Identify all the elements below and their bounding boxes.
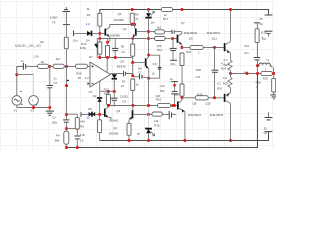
svg-text:R14: R14 (156, 98, 162, 102)
svg-text:C4: C4 (80, 138, 84, 142)
wire Q10 collector to neg rail (230, 103, 232, 140)
resistor R17 (in rail) (161, 7, 172, 21)
capacitor C10 (244, 44, 260, 74)
svg-text:2N5401: 2N5401 (109, 119, 119, 123)
resistor R29 (damper) (261, 68, 275, 81)
row 114.2 right + resistor col 77 (67, 114, 86, 129)
svg-text:D2: D2 (93, 94, 97, 98)
svg-text:out: out (244, 70, 248, 74)
top driver row 47.1 (180, 45, 224, 54)
driver emitter resistors col 182 (180, 53, 201, 98)
svg-text:Q10: Q10 (205, 101, 211, 105)
svg-text:di4: di4 (40, 40, 44, 44)
wire D4 to node (92, 33, 100, 35)
resistor R27 (zigzag) (224, 58, 233, 70)
svg-text:R28: R28 (223, 82, 229, 86)
inductor L1 (258, 58, 274, 74)
svg-text:39: 39 (122, 80, 126, 84)
svg-text:78: 78 (137, 132, 141, 136)
svg-text:L1: L1 (266, 58, 270, 62)
wire tie to D4 (74, 33, 88, 35)
svg-text:2N5384: 2N5384 (109, 131, 119, 135)
ground (load) (270, 95, 277, 99)
svg-text:C13: C13 (160, 84, 166, 88)
resistor (VAS load col 132.7) (131, 79, 140, 106)
tie (input bias) (73, 31, 75, 37)
capacitor row 114.1 (169, 111, 176, 119)
junction Q5 collector node (147, 54, 150, 57)
resistor R7 (tail) (89, 45, 110, 59)
transistor Q4 (113, 106, 148, 130)
svg-text:10n: 10n (171, 62, 176, 66)
svg-text:C7: C7 (138, 70, 142, 74)
junction col66 input (65, 65, 68, 68)
junction input col (15, 73, 18, 76)
junction VAS node (131, 74, 134, 77)
wire Q9 collector to rail (230, 10, 232, 42)
ground (sources) (46, 111, 54, 115)
svg-text:70: 70 (135, 17, 139, 21)
tie bar (net) (170, 60, 177, 66)
resistor (col 108.4) (106, 92, 127, 106)
transistor Q7 (178, 32, 182, 48)
zener D7 (146, 115, 155, 143)
diode D2 (93, 88, 109, 115)
svg-text:F9: F9 (52, 20, 56, 24)
wire Q10 emitter up (230, 87, 232, 92)
opamp X1 (88, 58, 126, 95)
svg-text:D4: D4 (86, 38, 90, 42)
svg-text:1.2: 1.2 (86, 22, 91, 26)
svg-text:R25: R25 (197, 93, 203, 97)
svg-text:R5: R5 (80, 124, 84, 128)
wire Q1 emitter to tail (108, 37, 110, 42)
svg-text:1u: 1u (170, 77, 174, 81)
capacitor C11 (col 215) (211, 48, 226, 98)
svg-text:BD140: BD140 (117, 64, 126, 68)
wire Q9 emitter (230, 53, 232, 60)
svg-text:27: 27 (121, 84, 125, 88)
wire detour col 159.6 (149, 55, 160, 78)
opamp supply row 57.7 (97, 56, 132, 59)
resistor R9 (col 100) (98, 42, 102, 58)
svg-text:12: 12 (86, 116, 90, 120)
source V3 (29, 96, 39, 113)
svg-text:R24: R24 (221, 67, 227, 71)
resistor (col 66 top) (64, 37, 68, 66)
junction zener col row38.5 (147, 37, 150, 40)
wire R5 bottom (131, 23, 133, 24)
svg-text:6.8: 6.8 (153, 62, 157, 66)
capacitor C4 col 77 (74, 129, 85, 150)
tie bar (output R19 top) (254, 23, 260, 29)
resistor R4 (55, 131, 69, 149)
wire zener col down (long spine) (148, 78, 150, 105)
transistor Q9 (225, 42, 231, 54)
wire Q1 collector loop (110, 25, 132, 27)
svg-text:C11: C11 (195, 75, 200, 79)
wire R7 to opamp rail (107, 56, 109, 59)
junction zener col row31.8 (147, 30, 150, 33)
svg-text:R19: R19 (261, 31, 267, 35)
capacitor C7 (133, 66, 148, 79)
svg-text:10u: 10u (73, 38, 78, 42)
svg-text:Q2: Q2 (116, 109, 120, 113)
compensation cap (output) (122, 71, 133, 84)
junction rail x182 (181, 8, 184, 11)
resistor (Q2 base col) (98, 115, 269, 141)
junction loop b (133, 23, 136, 26)
svg-text:100n: 100n (51, 120, 58, 124)
svg-text:R6: R6 (135, 12, 139, 16)
capacitor C3 col 66 (51, 115, 69, 131)
svg-text:30: 30 (264, 126, 268, 130)
diode D5 (under output wire) (112, 74, 117, 92)
zener D6 (146, 8, 185, 55)
svg-text:MJE15032: MJE15032 (207, 31, 221, 35)
svg-text:V1: V1 (14, 108, 18, 112)
svg-text:30: 30 (260, 22, 264, 26)
svg-text:C3: C3 (52, 115, 56, 119)
output row 73.5 (231, 70, 261, 75)
svg-text:Q3: Q3 (118, 12, 122, 16)
junction R3col row38.5 (98, 37, 101, 40)
svg-text:98: 98 (121, 44, 125, 48)
svg-text:R7: R7 (89, 55, 93, 59)
svg-text:200k: 200k (80, 46, 87, 50)
svg-text:MODEL_15V_AD: MODEL_15V_AD (15, 44, 41, 48)
bias row 38.5 (97, 38, 154, 40)
svg-text:1.8n: 1.8n (80, 133, 86, 137)
svg-text:D6: D6 (151, 21, 155, 25)
svg-text:Q1: Q1 (123, 27, 127, 31)
svg-text:1.2: 1.2 (85, 76, 90, 80)
resistor R30 (load) (256, 74, 276, 95)
svg-text:4.2: 4.2 (221, 62, 225, 66)
bottom driver row 99.5 (155, 93, 224, 108)
svg-text:2N5088: 2N5088 (114, 18, 124, 22)
junction row114 zener col (147, 113, 150, 116)
svg-text:Q4: Q4 (113, 126, 117, 130)
wire tail stub to bias row (107, 39, 109, 46)
wire R3 to Q1 base node (99, 26, 101, 38)
small cap on col 159.6 (152, 62, 162, 75)
svg-text:R17: R17 (163, 17, 169, 21)
capacitor C1 (21, 59, 38, 70)
resistor R3 (87, 7, 102, 26)
resistor R19 (255, 29, 267, 58)
input row 66.3 (17, 67, 23, 75)
svg-text:4.2: 4.2 (217, 82, 221, 86)
svg-text:56p: 56p (160, 89, 165, 93)
collector loop row 106.8 (107, 104, 157, 107)
svg-text:2N5088: 2N5088 (110, 34, 120, 38)
resistor R1 (33, 55, 48, 69)
svg-text:Q11: Q11 (212, 37, 218, 41)
svg-text:1.3k: 1.3k (33, 55, 39, 59)
svg-text:Q7: Q7 (181, 21, 185, 25)
junction row 128.9 (65, 127, 68, 130)
svg-text:R23: R23 (186, 50, 192, 54)
svg-text:2u: 2u (152, 71, 156, 75)
svg-text:C(CE): C(CE) (120, 94, 128, 98)
capacitor C6 (112, 39, 126, 58)
svg-text:R25: R25 (196, 68, 202, 72)
wire R3col down (99, 39, 101, 43)
svg-text:C10: C10 (244, 44, 250, 48)
svg-text:Q9: Q9 (189, 37, 193, 41)
wire Q3 base to zener node (136, 31, 148, 33)
Q2 base row 114.1 (81, 112, 105, 117)
svg-text:R4: R4 (56, 133, 60, 137)
svg-text:MJE15031: MJE15031 (188, 113, 202, 117)
svg-text:1u: 1u (21, 59, 25, 63)
svg-text:C2: C2 (54, 81, 58, 85)
capacitor C9 (col 173) (170, 39, 177, 60)
svg-text:2n: 2n (54, 77, 58, 81)
resistor R6 (VAS bias col 132.7) (131, 37, 135, 76)
svg-text:V5: V5 (259, 17, 263, 21)
svg-text:68k: 68k (55, 138, 60, 142)
transistor Q3 (118, 12, 136, 37)
svg-text:4k7: 4k7 (56, 57, 61, 61)
feedback col 66 (65, 67, 69, 120)
diode D1 (95, 39, 100, 58)
transistor Q2 (105, 107, 121, 120)
source V1 (12, 67, 23, 113)
svg-text:R18: R18 (154, 124, 160, 128)
resistor R18 row 114.1 (149, 112, 169, 128)
junction tail (106, 41, 109, 44)
resistor R5 (130, 12, 139, 23)
svg-text:Q8: Q8 (193, 101, 197, 105)
svg-text:R3: R3 (87, 13, 91, 17)
svg-text:MJE15030: MJE15030 (184, 31, 198, 35)
battery F9 col 66 (50, 7, 70, 37)
junction loop a (131, 23, 134, 26)
resistor (Q4 emitter col 129) (127, 120, 131, 142)
battery V6 (263, 112, 272, 135)
svg-text:6.36O: 6.36O (50, 16, 58, 20)
resistor R12 (200) row38.5 (154, 36, 177, 52)
wire top rail +V (100, 10, 269, 15)
svg-text:R1: R1 (41, 60, 45, 64)
svg-text:R12: R12 (157, 48, 163, 52)
svg-text:0.2: 0.2 (223, 76, 227, 80)
svg-text:C9: C9 (122, 100, 126, 104)
transistor Q1 (100, 27, 127, 37)
svg-text:R26: R26 (217, 87, 223, 91)
cap + tie col 174 (160, 77, 179, 107)
junction rail/R5 (131, 8, 134, 11)
junction (98, 32, 101, 35)
resistor R11 (5k1) row31.8 (149, 25, 172, 33)
feedback return col 257 (67, 74, 258, 148)
capacitor row31.8 (172, 30, 181, 34)
svg-text:R30: R30 (256, 80, 262, 84)
svg-text:R29: R29 (263, 76, 269, 80)
resistor R08 (75, 64, 90, 80)
opamp neg supply row 91.3 (100, 90, 116, 93)
resistor R2 (49, 57, 76, 68)
svg-text:12k: 12k (154, 119, 159, 123)
opamp output wire (111, 73, 124, 75)
wire to output node (230, 70, 232, 73)
diode D4 (73, 31, 92, 43)
wire Q5 emitter down (148, 69, 150, 79)
battery V5 (259, 15, 272, 41)
transistor Q6 (178, 98, 187, 142)
resistor R28 (zigzag) (223, 76, 232, 87)
transistor Q5 (133, 56, 148, 68)
transistor Q10 (225, 93, 231, 104)
capacitor C2 col 49.8 (47, 67, 58, 111)
svg-text:D6: D6 (88, 107, 92, 111)
junction R1/R2 (48, 65, 51, 68)
svg-text:5k1: 5k1 (157, 25, 162, 29)
wire V3 top row (17, 74, 34, 76)
svg-text:C6: C6 (121, 50, 125, 54)
svg-text:V6: V6 (263, 131, 267, 135)
source bottom row (17, 106, 52, 109)
svg-text:4k6: 4k6 (80, 119, 85, 123)
junction L1 tap (256, 64, 259, 67)
svg-text:MJE15033: MJE15033 (210, 113, 224, 117)
capacitor (col 114.3) (111, 92, 118, 107)
svg-text:Q4: Q4 (120, 59, 124, 63)
svg-text:50: 50 (78, 76, 82, 80)
svg-text:47n: 47n (244, 51, 249, 55)
